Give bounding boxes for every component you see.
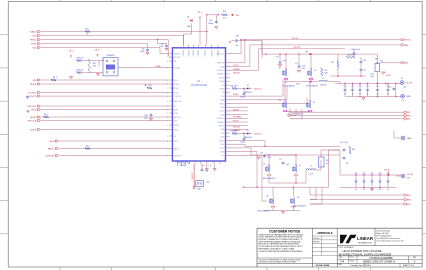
testpoint TP4 MON	[27, 110, 29, 112]
tag BG1	[404, 118, 411, 121]
svg-text:D1: D1	[247, 85, 249, 87]
svg-text:R78: R78	[223, 11, 226, 13]
wire TG2 drop	[309, 187, 311, 195]
svg-text:VETMA2: VETMA2	[233, 116, 242, 119]
svg-text:VR_2: VR_2	[95, 50, 100, 52]
sense resistor R62b	[319, 157, 330, 167]
label Q1 pn	[283, 83, 318, 87]
svg-text:C73: C73	[366, 86, 369, 88]
svg-text:V5: V5	[222, 92, 224, 94]
svg-text:PGOOD: PGOOD	[183, 49, 185, 56]
node VOUT arrow	[382, 72, 392, 77]
svg-text:R5x: R5x	[331, 62, 334, 64]
svg-text:4: 4	[167, 88, 168, 90]
svg-text:PGOOD: PGOOD	[218, 49, 220, 56]
svg-text:SNC2B: SNC2B	[233, 126, 240, 128]
resistor R44b on ILIM	[51, 77, 57, 81]
ground lower fets	[281, 212, 284, 214]
svg-text:C44_0.01uF: C44_0.01uF	[351, 49, 360, 51]
wire SETCUR to U1	[42, 120, 170, 122]
net label VIN mid	[305, 52, 311, 55]
power flag VR_2 right	[95, 50, 100, 57]
svg-text:BSC010NE2LSI: BSC010NE2LSI	[306, 85, 318, 87]
svg-text:ILIM: ILIM	[174, 80, 178, 82]
capacitor C50	[240, 89, 245, 99]
capacitor C42 label	[340, 142, 348, 144]
svg-text:L2: L2	[310, 166, 312, 168]
approvals row labels	[313, 238, 320, 244]
port BUCK	[30, 129, 40, 132]
port ILIM	[32, 79, 40, 82]
svg-text:VOUT: VOUT	[233, 121, 239, 123]
svg-text:VOUT: VOUT	[384, 170, 390, 172]
wire BG1	[229, 98, 307, 104]
resistor R43	[77, 70, 84, 74]
svg-text:SW1: SW1	[220, 100, 224, 102]
wire R42 to header	[82, 60, 104, 67]
svg-text:SETCUR: SETCUR	[28, 120, 37, 122]
svg-text:TP8: TP8	[206, 182, 209, 184]
svg-text:uF: uF	[355, 189, 357, 191]
svg-text:PCB NO: PCB NO	[350, 261, 356, 263]
svg-text:MODE: MODE	[174, 84, 180, 86]
wire BG2 drop	[310, 187, 322, 204]
title block lines	[257, 228, 422, 267]
net label SRC HI	[292, 38, 299, 40]
svg-text:GND: GND	[220, 151, 225, 153]
wire rail SW1	[290, 115, 404, 117]
title line2	[339, 252, 392, 256]
svg-text:BI-DIRECTIONAL SUPPLY/CHARGER: BI-DIRECTIONAL SUPPLY/CHARGER	[339, 252, 392, 256]
diode D4	[187, 17, 193, 29]
wire LVIN to U1 top pin	[42, 36, 184, 45]
small parts col	[343, 146, 355, 165]
svg-text:100pF: 100pF	[140, 51, 144, 53]
svg-text:DRVM: DRVM	[174, 125, 180, 127]
wire top rail	[206, 14, 219, 15]
svg-text:Q4: Q4	[313, 102, 315, 104]
svg-text:D1: D1	[247, 130, 249, 132]
wire lower rail	[243, 187, 329, 188]
svg-text:4: 4	[167, 101, 168, 103]
part number	[369, 256, 393, 260]
svg-text:LVAUX: LVAUX	[30, 30, 37, 33]
wire Q2 source rail	[285, 112, 310, 115]
diode cluster DRVCC2	[230, 130, 262, 139]
svg-text:DRVCC2: DRVCC2	[254, 133, 262, 135]
svg-text:uF: uF	[344, 93, 346, 95]
net labels right of U1	[233, 65, 242, 132]
wire VR2 junction down	[206, 15, 208, 45]
svg-text:8: 8	[229, 137, 230, 139]
wire jack trunk	[388, 84, 396, 97]
svg-text:Q1: Q1	[279, 68, 281, 70]
U1 right pin stubs with pin names and numbers	[217, 53, 231, 157]
testpoint TP3 CLKOUT2	[26, 96, 28, 98]
wire TG1 drop	[289, 108, 291, 112]
svg-text:DRVCC1: DRVCC1	[254, 88, 262, 90]
icno cell	[350, 257, 356, 263]
jumper JP2 below U1	[196, 181, 209, 191]
svg-text:Q7: Q7	[299, 165, 301, 167]
svg-text:Tuesday, June 07, 2016: Tuesday, June 07, 2016	[350, 265, 370, 267]
transistor Q2	[308, 68, 317, 79]
svg-text:GND: GND	[220, 66, 225, 68]
svg-text:SETCUR: SETCUR	[174, 117, 182, 119]
svg-text:ILIM: ILIM	[32, 80, 36, 82]
wire SW1 drop	[290, 109, 296, 116]
capacitor C45 at SS2	[140, 49, 149, 55]
svg-text:100pF: 100pF	[159, 46, 163, 48]
port SS2	[32, 47, 40, 50]
svg-text:C48: C48	[235, 36, 238, 38]
svg-text:0.33uF: 0.33uF	[240, 97, 245, 99]
svg-text:D4: D4	[187, 17, 189, 19]
svg-text:8: 8	[229, 81, 230, 83]
svg-text:LINEAR: LINEAR	[357, 236, 374, 241]
wire MODE to U1	[42, 83, 170, 85]
svg-text:8: 8	[229, 77, 230, 79]
inductor L1	[319, 78, 328, 87]
svg-text:BUCK: BUCK	[30, 129, 37, 131]
svg-text:PHLOW: PHLOW	[174, 57, 181, 59]
svg-text:R81: R81	[85, 29, 88, 31]
wire LVAUX to top cluster	[42, 31, 208, 32]
ground below U1 a	[205, 169, 208, 171]
svg-text:PGOOD: PGOOD	[198, 49, 200, 56]
ground below U1 b	[213, 169, 216, 171]
svg-text:PHSLI: PHSLI	[30, 39, 37, 41]
svg-text:R80: R80	[375, 59, 378, 61]
svg-text:C70: C70	[344, 86, 347, 88]
capacitor C46 at PHSLI	[158, 40, 169, 51]
capacitor C12	[279, 159, 289, 167]
svg-text:100V: 100V	[370, 76, 374, 78]
svg-text:BG1: BG1	[221, 107, 225, 109]
power flag VR_2 left	[69, 51, 74, 58]
tag BG2	[404, 203, 411, 206]
svg-text:Phone: (408)432-1900: Phone: (408)432-1900	[376, 235, 391, 237]
svg-text:MON: MON	[31, 109, 37, 111]
svg-text:R6_2: R6_2	[44, 114, 48, 116]
transistor Q2b	[279, 100, 287, 112]
svg-text:RUN: RUN	[174, 141, 179, 143]
svg-text:SNS1B: SNS1B	[233, 69, 240, 71]
svg-text:8: 8	[229, 133, 230, 135]
svg-text:uF: uF	[359, 93, 361, 95]
svg-text:4: 4	[167, 61, 168, 63]
wire ph2 drain rail	[266, 154, 297, 165]
wire SW2 drop	[310, 187, 316, 199]
U1 bottom pin stubs	[178, 161, 221, 164]
wire right riser	[328, 150, 330, 187]
wire TG1	[229, 80, 283, 96]
ground cap bank	[362, 98, 365, 100]
wire capbank2 top	[340, 174, 401, 175]
svg-text:VOUT: VOUT	[233, 65, 239, 67]
svg-text:FAULT: FAULT	[174, 147, 180, 150]
capacitor bank 2	[355, 173, 390, 191]
inductor L2	[306, 166, 316, 176]
svg-text:SNSD1+: SNSD1+	[217, 70, 224, 72]
tag TG2	[404, 194, 411, 197]
wire SS2	[42, 48, 170, 54]
svg-text:CUSTOMER NOTICE: CUSTOMER NOTICE	[269, 229, 300, 233]
svg-text:N/A: N/A	[341, 260, 345, 263]
wire ILIM to U1	[42, 79, 170, 81]
svg-text:SRC IN: SRC IN	[294, 47, 301, 49]
port PHSLI	[30, 39, 40, 42]
transistor Q7	[293, 164, 302, 175]
capacitor C30 on MON2 wire	[144, 114, 152, 121]
svg-text:VFBH: VFBH	[220, 81, 225, 83]
ground capbank2	[370, 189, 373, 191]
port SETCUR	[28, 120, 41, 123]
label Q8 pn	[294, 206, 307, 208]
wire TG2	[229, 141, 266, 148]
svg-text:SCALE: NONE: SCALE: NONE	[316, 264, 330, 267]
svg-text:SNSD2+: SNSD2+	[217, 118, 224, 120]
svg-text:BSC010NE2LSI: BSC010NE2LSI	[291, 113, 303, 115]
ground phase1 fets	[287, 115, 290, 117]
svg-text:VFBLOW: VFBLOW	[217, 63, 225, 65]
svg-text:L_R_: L_R_	[208, 165, 212, 167]
svg-text:SYNC: SYNC	[174, 92, 180, 94]
approvals header	[317, 232, 333, 235]
svg-text:C71: C71	[351, 86, 354, 88]
svg-text:VCC2: VCC2	[220, 148, 225, 150]
resistor R62 on MON2	[44, 114, 49, 118]
transistor Q4b	[307, 100, 316, 111]
wire PHS2	[42, 44, 148, 48]
svg-text:uF: uF	[352, 93, 354, 95]
svg-text:C11: C11	[295, 63, 298, 65]
wire C48 left	[232, 40, 235, 42]
wire DRVCC2 vertical	[192, 164, 194, 181]
wire trunk to capbank2	[329, 150, 341, 175]
wire header to PHSMD pin	[118, 66, 169, 68]
wire VR2 down to U1	[199, 19, 201, 45]
svg-text:IC NO.: IC NO.	[350, 257, 355, 259]
transistor Q8	[291, 197, 300, 207]
svg-text:VOUT: VOUT	[386, 75, 392, 77]
wire MON to U1	[42, 109, 170, 111]
node VOUT2	[384, 170, 390, 176]
wire bottom pins	[178, 164, 215, 169]
port RUN	[50, 140, 59, 143]
svg-text:BG2: BG2	[221, 144, 225, 146]
svg-text:uF: uF	[387, 93, 389, 95]
power arrow C48	[229, 41, 231, 43]
feedback network cluster	[321, 49, 366, 77]
diode cluster DRVCC1	[230, 85, 262, 94]
svg-text:0.33uF: 0.33uF	[240, 142, 245, 144]
svg-text:BST2: BST2	[220, 140, 225, 142]
svg-text:4.7uF: 4.7uF	[205, 171, 209, 173]
wire DRVOUT to U1	[42, 105, 170, 107]
svg-text:PHSMD: PHSMD	[174, 67, 181, 69]
svg-text:MODE: MODE	[30, 84, 37, 86]
svg-text:PHSMD2: PHSMD2	[107, 55, 115, 57]
svg-text:VCC1: VCC1	[220, 111, 225, 113]
wire vert feed1	[229, 152, 258, 188]
wire riser 258.5	[229, 49, 259, 70]
resistor R51 near U1 FREQ	[145, 84, 153, 89]
customer notice header	[269, 229, 300, 233]
tag SW1	[404, 114, 412, 117]
svg-text:BG2H: BG2H	[233, 110, 239, 112]
svg-text:PGOOD: PGOOD	[188, 49, 190, 56]
svg-text:C55: C55	[260, 153, 263, 155]
svg-text:SNSA2+: SNSA2+	[217, 121, 224, 124]
address block	[376, 229, 404, 242]
svg-text:uF: uF	[377, 93, 379, 95]
resistor R42	[77, 58, 84, 62]
transistor Q5	[263, 164, 271, 176]
svg-text:Q3: Q3	[314, 70, 316, 72]
svg-text:1uF: 1uF	[286, 164, 289, 166]
transistor Q1	[279, 68, 288, 80]
svg-text:C79: C79	[388, 87, 391, 89]
svg-text:C74: C74	[376, 86, 379, 88]
wire C48 right to bus	[238, 41, 262, 58]
svg-text:100pF: 100pF	[208, 23, 214, 25]
svg-text:PHMD: PHMD	[155, 66, 161, 68]
svg-text:J3: J3	[401, 78, 403, 80]
svg-text:PGOOD: PGOOD	[193, 49, 195, 56]
svg-text:50pF: 50pF	[144, 117, 148, 119]
svg-text:DEMO CIRCUIT 2348A-A: DEMO CIRCUIT 2348A-A	[363, 260, 395, 264]
wire cap bank bottom rail	[345, 96, 401, 97]
capacitor C48	[235, 36, 239, 47]
svg-text:R45 453K: R45 453K	[230, 85, 238, 87]
svg-text:EXTVCC: EXTVCC	[404, 40, 413, 42]
svg-text:DRVLOW: DRVLOW	[174, 101, 182, 103]
svg-text:1.5uF: 1.5uF	[370, 74, 374, 76]
svg-text:8: 8	[229, 89, 230, 91]
svg-text:TECHNOLOGY: TECHNOLOGY	[358, 242, 373, 244]
wire rail 54	[262, 41, 377, 55]
tag SW2	[404, 198, 412, 201]
wire comb IC right mid	[229, 107, 248, 129]
jumper JP1 PHSMD2 header	[103, 55, 118, 76]
port CLKOUT2	[26, 95, 40, 98]
jack J3 VLOW	[400, 78, 412, 89]
svg-text:C45: C45	[142, 49, 145, 51]
svg-text:SRC HI: SRC HI	[292, 38, 299, 40]
svg-text:uF: uF	[367, 93, 369, 95]
svg-text:C46: C46	[161, 44, 164, 46]
svg-text:VR_2: VR_2	[69, 51, 74, 53]
ground JP2 red arrow	[193, 181, 196, 190]
wire rail 44.9	[250, 44, 401, 46]
port DRVOUT	[27, 105, 40, 108]
svg-text:C37: C37	[363, 70, 366, 72]
sheet	[403, 265, 414, 267]
svg-text:ITHR: ITHR	[174, 113, 179, 115]
resistor R61 on FAULT wire	[85, 145, 90, 149]
title line1	[342, 249, 381, 253]
svg-text:uF: uF	[379, 189, 381, 191]
wire R43 to header	[82, 72, 104, 74]
net label SRC LO	[294, 47, 301, 49]
wire CLKOUT to U1	[42, 92, 170, 94]
svg-text:CLKOUT: CLKOUT	[28, 92, 38, 94]
svg-text:R6_1: R6_1	[86, 145, 90, 147]
svg-text:SNSA1+: SNSA1+	[217, 73, 224, 76]
svg-text:APPROVALS: APPROVALS	[317, 232, 333, 235]
wire PHSLI	[42, 39, 170, 57]
wire MON2 to U1	[42, 116, 170, 118]
svg-text:R4_4: R4_4	[53, 77, 57, 79]
svg-text:TG1: TG1	[221, 96, 225, 98]
jack J6 GND top	[401, 136, 412, 140]
tag TG6	[401, 44, 409, 47]
svg-text:L1: L1	[322, 78, 324, 80]
port MON	[31, 109, 40, 112]
wire capbank2 bot	[340, 187, 396, 188]
wire SW node ph1	[286, 77, 319, 82]
jack J5 VLOW2	[396, 174, 413, 179]
scale none	[316, 264, 330, 267]
capacitor C51	[240, 134, 245, 144]
svg-text:GND: GND	[407, 138, 412, 140]
svg-text:8: 8	[229, 92, 230, 94]
svg-text:0.75: 0.75	[380, 61, 383, 63]
date	[338, 263, 370, 267]
wire L1 to cap rail	[328, 82, 341, 84]
svg-text:PGOOD: PGOOD	[205, 49, 207, 56]
svg-text:R66: R66	[352, 149, 355, 151]
U1 left pin stubs with pin names and numbers	[167, 53, 182, 157]
svg-text:GND: GND	[220, 114, 225, 116]
ground below R42 cluster	[69, 77, 72, 79]
svg-text:VLOW: VLOW	[406, 82, 412, 84]
demo circuit	[363, 260, 395, 264]
svg-text:100V: 100V	[302, 68, 306, 70]
svg-text:DRVSET: DRVSET	[46, 155, 55, 157]
svg-text:BSC010NE2LSI: BSC010NE2LSI	[263, 178, 276, 180]
svg-text:SHEET 1 OF 1: SHEET 1 OF 1	[403, 265, 414, 267]
ground right of header	[96, 74, 99, 76]
label Q6 pn	[258, 211, 271, 213]
svg-text:J4: J4	[402, 100, 404, 102]
resistor R78	[222, 11, 228, 20]
transistor Q6	[266, 196, 275, 208]
wire rail 146	[229, 144, 340, 146]
svg-text:MON2: MON2	[30, 117, 37, 119]
svg-text:CLKOUT: CLKOUT	[174, 96, 182, 98]
svg-text:RUN: RUN	[50, 141, 55, 143]
svg-text:C44: C44	[209, 20, 212, 22]
net label VIN	[232, 14, 240, 17]
svg-text:SNS2-: SNS2-	[219, 126, 225, 128]
wire riser 244.9	[229, 39, 246, 63]
svg-text:DRVOUT: DRVOUT	[27, 106, 37, 108]
wire cap bank top rail	[335, 83, 400, 84]
rev cell	[413, 257, 416, 264]
svg-text:LVIN: LVIN	[32, 35, 37, 37]
svg-text:U1: U1	[197, 79, 201, 83]
wire SW1	[229, 86, 287, 100]
port DRVSET	[46, 155, 59, 158]
svg-text:VLOW: VLOW	[407, 174, 413, 176]
svg-text:FAULT: FAULT	[48, 147, 55, 150]
resistor network below U1	[177, 161, 190, 167]
svg-text:PWREN: PWREN	[174, 53, 181, 55]
svg-text:Q5: Q5	[263, 164, 265, 166]
svg-text:Q6: Q6	[266, 196, 268, 198]
